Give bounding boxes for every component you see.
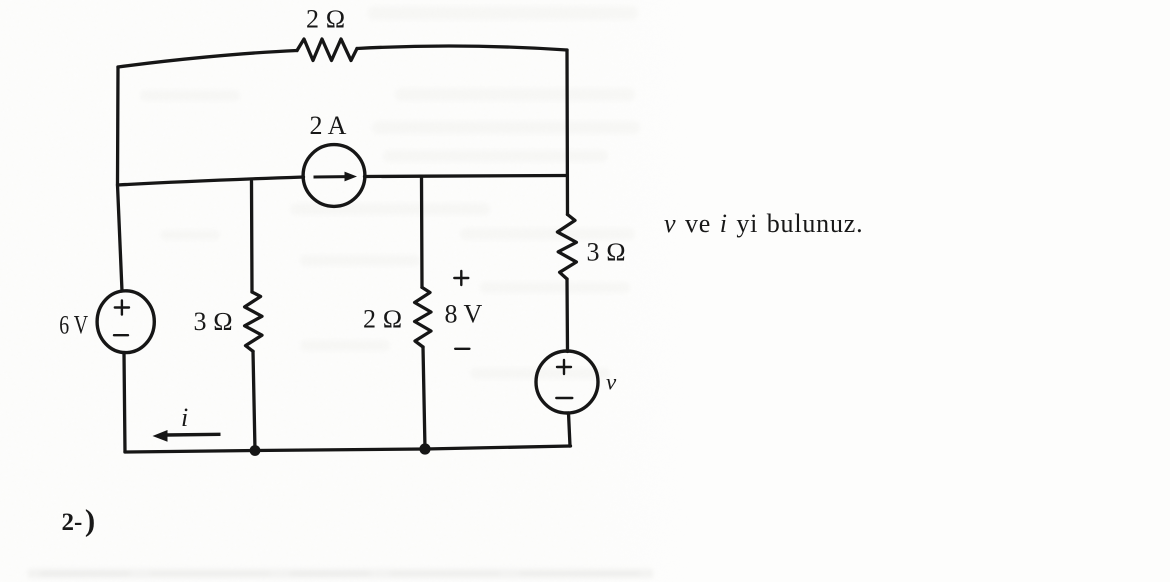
- svg-text:3 Ω: 3 Ω: [587, 237, 626, 266]
- node: bottom junction dot left: [250, 445, 261, 456]
- wire: 2ohm branch below resistor to bottom node: [423, 347, 425, 449]
- wire: right rail from top wire down to 3ohm: [565, 50, 569, 215]
- faint bleed-through text band at bottom: [28, 569, 653, 578]
- svg-text:v: v: [606, 370, 617, 395]
- resistor R3 2ohm (middle, vertical) zigzag: [415, 287, 431, 347]
- minus sign below 8V label: [455, 348, 469, 350]
- minus sign of 6V source: [114, 334, 128, 336]
- wire: 3ohm branch below resistor to bottom node: [253, 351, 255, 450]
- wire: left rail vertical (top wire down to 6V source): [118, 67, 123, 291]
- svg-text:2 Ω: 2 Ω: [306, 5, 345, 34]
- voltage source V2 v circle: [536, 351, 598, 413]
- wire: 2ohm branch from middle wire down: [420, 176, 424, 287]
- wire: middle horizontal left of 2A source: [118, 177, 304, 185]
- wire: bottom rail: [125, 446, 571, 452]
- plus sign above 8V label: [454, 271, 468, 285]
- wire: right rail below v source to bottom: [569, 413, 571, 446]
- svg-text:6 V: 6 V: [59, 310, 88, 339]
- wire: top-left from left rail up to 2ohm resistor: [118, 51, 297, 68]
- wire: top-right from 2ohm to right rail: [357, 46, 567, 50]
- svg-text:2 A: 2 A: [310, 111, 347, 140]
- node: bottom junction dot right: [419, 443, 430, 454]
- svg-text:2 Ω: 2 Ω: [363, 305, 402, 334]
- current source I1 2A circle: [303, 145, 365, 207]
- svg-text:i: i: [181, 403, 188, 432]
- paper speckle texture over scanned area: [0, 0, 690, 582]
- minus sign of v source: [556, 397, 572, 399]
- arrow for current i on bottom-left: [153, 430, 221, 442]
- faint bleed-through ghost text in circuit area: [140, 6, 640, 379]
- plus sign of v source: [557, 360, 571, 374]
- resistor R4 3ohm (right, vertical) zigzag: [557, 215, 576, 280]
- svg-text:v ve i yi bulunuz.: v ve i yi bulunuz.: [664, 209, 863, 238]
- resistor R2 3ohm (left, vertical) zigzag: [245, 292, 262, 351]
- wire: right rail between 3ohm and v source: [565, 279, 569, 352]
- svg-text:8 V: 8 V: [445, 299, 483, 328]
- wire: 3ohm branch from middle wire down: [250, 182, 254, 293]
- voltage source V1 6V circle: [97, 291, 154, 353]
- arrow inside 2A current source: [314, 172, 358, 182]
- plus sign of 6V source: [115, 300, 129, 314]
- wire: left rail below 6V source to bottom: [124, 353, 125, 453]
- svg-text:3 Ω: 3 Ω: [194, 307, 233, 336]
- wire: middle horizontal right of 2A source: [365, 176, 568, 177]
- resistor R top 2ohm zigzag: [297, 39, 357, 61]
